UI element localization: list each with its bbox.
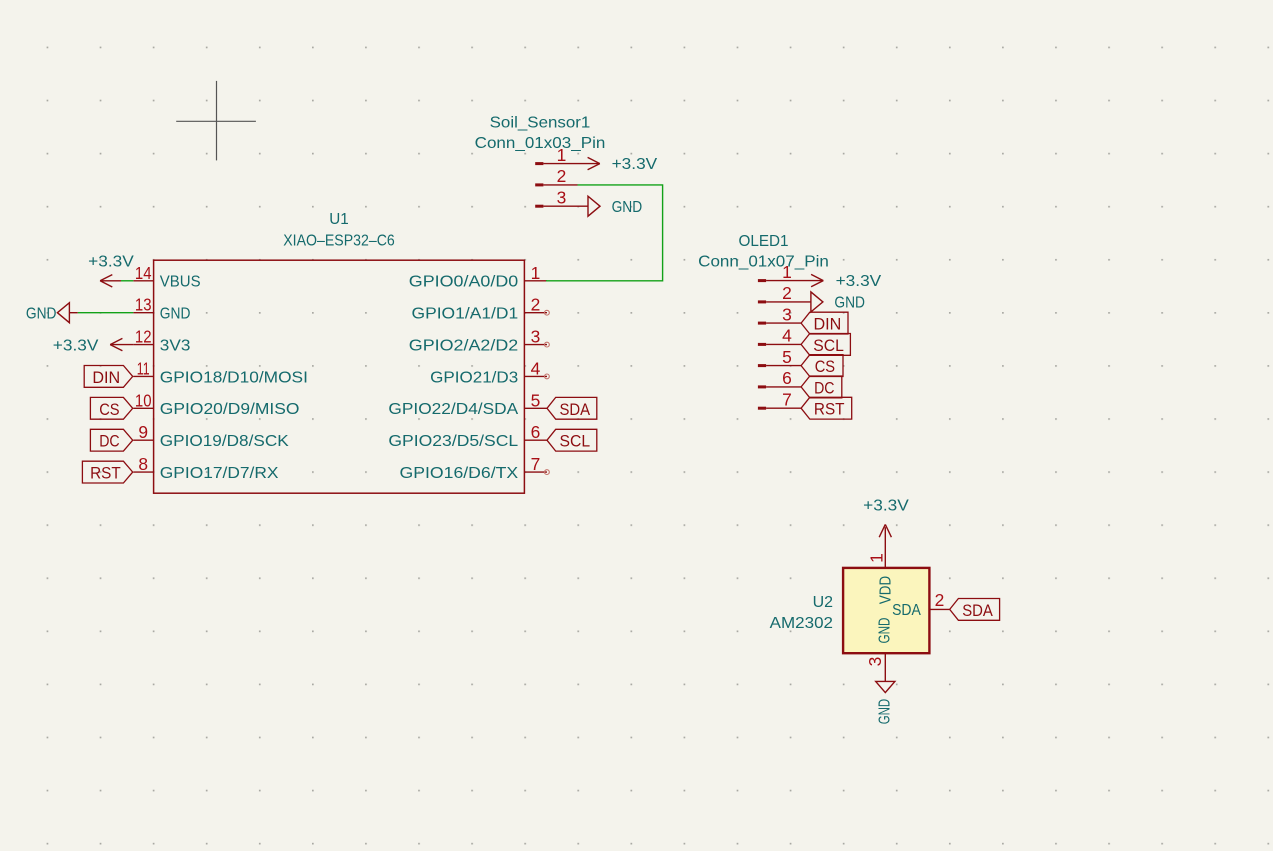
svg-text:2: 2 [531,295,541,315]
svg-text:4: 4 [782,326,792,346]
svg-text:GPIO21/D3: GPIO21/D3 [430,369,518,386]
svg-text:3: 3 [782,304,792,324]
svg-text:GPIO19/D8/SCK: GPIO19/D8/SCK [160,433,289,450]
svg-text:8: 8 [138,454,148,474]
svg-text:2: 2 [557,166,567,186]
svg-text:2: 2 [935,590,945,610]
svg-text:4: 4 [531,358,541,378]
svg-text:GPIO0/A0/D0: GPIO0/A0/D0 [409,274,519,291]
svg-text:Conn_01x07_Pin: Conn_01x07_Pin [698,254,829,271]
svg-text:GND: GND [876,618,893,644]
svg-text:OLED1: OLED1 [738,233,788,250]
svg-text:GND: GND [26,306,57,323]
svg-text:9: 9 [138,422,148,442]
svg-text:+3.3V: +3.3V [53,338,99,355]
svg-text:XIAO–ESP32–C6: XIAO–ESP32–C6 [283,233,395,250]
svg-text:Soil_Sensor1: Soil_Sensor1 [490,115,591,132]
svg-text:SCL: SCL [813,337,844,355]
svg-text:GPIO2/A2/D2: GPIO2/A2/D2 [409,338,519,355]
svg-text:RST: RST [90,465,121,483]
svg-text:RST: RST [814,401,845,419]
svg-text:11: 11 [137,358,150,378]
svg-text:GPIO23/D5/SCL: GPIO23/D5/SCL [388,433,518,450]
svg-text:1: 1 [782,262,792,282]
svg-text:GPIO18/D10/MOSI: GPIO18/D10/MOSI [160,369,308,386]
svg-text:GND: GND [834,295,865,312]
svg-text:DC: DC [99,433,120,451]
svg-text:2: 2 [782,283,792,303]
svg-text:DC: DC [814,379,835,397]
svg-text:SCL: SCL [560,433,591,451]
svg-text:+3.3V: +3.3V [88,254,134,271]
svg-text:AM2302: AM2302 [770,615,833,632]
svg-text:+3.3V: +3.3V [863,498,909,515]
svg-text:3V3: 3V3 [160,338,191,355]
svg-text:SDA: SDA [962,602,993,620]
svg-text:3: 3 [557,187,567,207]
svg-text:7: 7 [531,454,541,474]
svg-text:3: 3 [865,657,885,667]
svg-text:10: 10 [135,390,152,410]
svg-text:6: 6 [531,422,541,442]
svg-text:GPIO17/D7/RX: GPIO17/D7/RX [160,465,279,482]
svg-text:1: 1 [531,263,541,283]
svg-text:GND: GND [612,199,643,216]
svg-text:VDD: VDD [878,576,895,604]
svg-text:+3.3V: +3.3V [612,156,658,173]
svg-text:U1: U1 [329,211,349,228]
svg-text:6: 6 [782,368,792,388]
svg-text:7: 7 [782,389,792,409]
svg-text:SDA: SDA [560,401,591,419]
svg-text:1: 1 [557,145,567,165]
svg-text:DIN: DIN [814,316,842,334]
svg-text:DIN: DIN [92,369,120,387]
svg-text:3: 3 [531,327,541,347]
svg-text:14: 14 [135,263,152,283]
svg-text:GND: GND [160,306,191,323]
svg-text:5: 5 [531,390,541,410]
svg-text:12: 12 [135,327,152,347]
svg-text:GPIO16/D6/TX: GPIO16/D6/TX [400,465,519,482]
svg-text:VBUS: VBUS [160,274,201,291]
svg-text:CS: CS [99,401,120,419]
svg-text:CS: CS [815,358,836,376]
svg-text:GPIO20/D9/MISO: GPIO20/D9/MISO [160,401,300,418]
svg-text:+3.3V: +3.3V [836,273,882,290]
svg-text:GPIO1/A1/D1: GPIO1/A1/D1 [412,306,519,323]
svg-text:1: 1 [867,553,887,563]
svg-text:Conn_01x03_Pin: Conn_01x03_Pin [475,135,606,152]
svg-text:SDA: SDA [892,602,921,619]
svg-text:U2: U2 [813,594,834,611]
svg-text:GPIO22/D4/SDA: GPIO22/D4/SDA [388,401,518,418]
svg-text:GND: GND [876,699,893,724]
svg-text:13: 13 [135,295,152,315]
svg-text:5: 5 [782,347,792,367]
